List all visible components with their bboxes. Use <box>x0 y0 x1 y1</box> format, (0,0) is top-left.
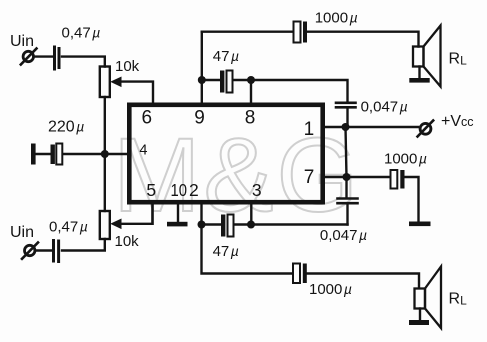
+Vcc terminal <box>418 121 434 137</box>
svg-text:RL: RL <box>449 290 468 307</box>
wire 47µ node to C 0.047µ (top) <box>251 80 348 101</box>
wire speaker to ground (bottom) <box>419 309 421 320</box>
svg-text:6: 6 <box>142 108 153 129</box>
potentiometer 10k (bottom) <box>100 211 122 239</box>
svg-text:3: 3 <box>252 180 262 200</box>
wire 1000µ to ground <box>405 177 419 221</box>
wire pin 1 to +Vcc <box>323 126 418 128</box>
capacitor 1000µ (bottom output) <box>293 264 307 284</box>
junction pin1 rail <box>342 123 350 131</box>
svg-text:1: 1 <box>304 119 315 140</box>
wire pin 9 up to 47µ node and 1000µ output rail <box>201 32 203 104</box>
capacitor 1000µ (right, pin 7) <box>391 170 405 189</box>
ground (pin 10) <box>167 222 188 227</box>
capacitor 0.047µ (bottom right) <box>338 177 358 225</box>
capacitor 0.47µ (bottom input) <box>54 241 59 262</box>
wire pot bottom to C 0.47µ (bottom) <box>62 239 105 251</box>
IC U1 body <box>129 105 322 202</box>
input terminal (top) <box>21 49 37 65</box>
ground (top speaker) <box>409 78 429 83</box>
junction pin9/47µ <box>198 76 206 84</box>
wire pin 5 to pot wiper <box>151 203 153 224</box>
svg-text:2: 2 <box>189 180 199 200</box>
wire pot wiper to pin 6 <box>122 82 154 104</box>
ground (right 1000µ) <box>409 222 431 227</box>
wire pin 10 to ground <box>177 203 179 222</box>
wire C to pot R 10k (top) <box>62 57 105 67</box>
svg-text:47µ: 47µ <box>213 243 239 260</box>
wire junction down to pin 8 <box>250 80 252 104</box>
speaker RL (bottom) <box>415 267 442 329</box>
svg-text:8: 8 <box>245 108 256 129</box>
wire terminal to C 0.47µ <box>34 55 53 57</box>
junction 47µ/pin8 <box>247 76 255 84</box>
wire C to input terminal (bottom) <box>36 249 51 251</box>
wire 1000µ to speaker (bottom) <box>307 274 419 288</box>
wire 47µ node to C 0.047µ (bottom) <box>251 223 348 225</box>
svg-text:Uin: Uin <box>10 224 34 241</box>
svg-text:4: 4 <box>139 143 147 159</box>
input terminal (bottom) <box>22 243 38 259</box>
wire pin 7 to 1000µ <box>323 176 390 178</box>
capacitor 1000µ (top output) <box>294 22 308 43</box>
node A junction <box>101 150 109 158</box>
svg-text:0,47µ: 0,47µ <box>49 219 88 236</box>
svg-text:1000µ: 1000µ <box>315 10 358 27</box>
speaker RL (top) <box>413 26 441 87</box>
wire pot wiper to pin 5 <box>122 203 153 224</box>
capacitor 47µ (bottom) <box>202 215 250 237</box>
wire 1000µ output rail (top) <box>202 31 293 33</box>
svg-text:RL: RL <box>449 51 468 68</box>
svg-text:0,047µ: 0,047µ <box>361 99 408 116</box>
junction 47µ/pin3 <box>247 221 255 229</box>
svg-text:47µ: 47µ <box>213 48 239 65</box>
junction pin7 rail <box>343 173 351 181</box>
capacitor 0.047µ (top) <box>336 103 356 108</box>
svg-text:7: 7 <box>304 167 315 188</box>
wire speaker to ground (top) <box>418 67 420 79</box>
svg-text:1000µ: 1000µ <box>384 151 427 168</box>
terminal bar (220µ input) <box>31 144 36 165</box>
capacitor 0.47µ (top input) <box>55 47 60 69</box>
junction pin2/47µ <box>198 221 206 229</box>
svg-text:5: 5 <box>146 180 156 200</box>
svg-text:+Vcc: +Vcc <box>441 113 474 130</box>
svg-text:1000µ: 1000µ <box>309 281 352 298</box>
svg-text:9: 9 <box>194 108 205 129</box>
wire C 0.047µ to pin1 rail <box>346 109 348 128</box>
wire pin1 junction to pin7 junction <box>346 127 347 177</box>
wire 1000µ to speaker (top) <box>308 32 419 47</box>
wire junction up to pin 3 <box>250 203 252 225</box>
svg-text:Uin: Uin <box>10 33 34 50</box>
svg-text:10: 10 <box>170 180 187 200</box>
wire node A to pot 10k (bottom) <box>104 154 106 211</box>
svg-text:0,047µ: 0,047µ <box>320 227 367 244</box>
svg-text:10k: 10k <box>115 58 140 75</box>
wire bar to C 220µ <box>36 153 50 155</box>
svg-text:0,47µ: 0,47µ <box>62 25 101 42</box>
svg-text:220µ: 220µ <box>48 119 84 136</box>
wire C 220µ to pin 4 <box>63 153 129 155</box>
svg-text:10k: 10k <box>115 233 140 250</box>
capacitor 47µ (top) <box>204 71 249 93</box>
capacitor 220µ <box>51 144 63 165</box>
wire pot bottom to node A <box>104 97 106 154</box>
wire pin 2 down to 47µ node <box>200 203 202 225</box>
wire pin 2 node to output C 1000µ (bottom) <box>202 225 293 274</box>
potentiometer 10k (top) <box>100 67 122 98</box>
ground (bottom speaker) <box>409 320 429 325</box>
